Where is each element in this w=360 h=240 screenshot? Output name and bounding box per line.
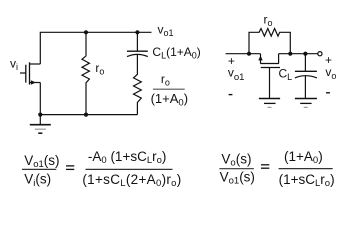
equation 2 LHS fraction bar	[219, 168, 254, 170]
svg-text:vo1: vo1	[158, 23, 174, 39]
equation 1 equals sign	[66, 166, 74, 170]
node dot drain rail at r_o	[84, 30, 88, 34]
wire source down to ground rail	[39, 83, 41, 115]
equation 1 LHS denominator V_i(s)	[24, 172, 51, 189]
label r_o left circuit	[95, 61, 104, 77]
svg-text:(1+A0): (1+A0)	[151, 91, 188, 109]
equation 1 RHS denominator (1+sC_L(2+A_0)r_o)	[82, 172, 181, 189]
node dot main rail at C_L	[303, 52, 307, 56]
node dot bottom rail at r_o	[84, 113, 88, 117]
transistor Q2 gate lead	[269, 68, 271, 99]
equation 2 equals sign	[261, 165, 269, 168]
svg-text:(1+sCLro): (1+sCLro)	[279, 172, 335, 189]
wire main rail right circuit left segment	[226, 53, 261, 55]
transistor Q1 gate lead	[20, 72, 26, 74]
label r_o right circuit	[264, 13, 273, 29]
label plus left	[228, 54, 235, 68]
wire bottom rail left circuit	[40, 114, 137, 116]
svg-text:vo: vo	[325, 65, 336, 81]
label C_L	[279, 66, 293, 82]
equation 2 LHS denominator V_o1(s)	[220, 169, 255, 186]
label C_L(1+A_0)	[152, 45, 200, 61]
equation 1 LHS numerator V_o1(s)	[24, 153, 59, 170]
node dot main rail right	[288, 52, 292, 56]
equation 1 LHS fraction bar	[22, 168, 56, 170]
svg-text:vo1: vo1	[228, 66, 245, 83]
node dot bottom rail at source	[38, 113, 42, 117]
transistor Q2 source lead with arrow	[258, 54, 262, 64]
resistor r_o/(1+A_0)	[134, 55, 142, 115]
label fraction r_o/(1+A_0)	[151, 72, 188, 109]
svg-text:ro: ro	[161, 72, 170, 88]
label v_i	[10, 56, 18, 72]
equation 2 RHS denominator (1+sC_Lr_o)	[279, 172, 335, 189]
label v_o1 right circuit	[228, 66, 245, 83]
label v_o	[325, 65, 336, 81]
ground GND3	[295, 99, 317, 108]
svg-text:CL(1+A0): CL(1+A0)	[152, 45, 200, 61]
svg-text:Vo1(s): Vo1(s)	[220, 169, 255, 186]
node dot main rail left	[247, 52, 251, 56]
label v_o1 top	[158, 23, 174, 39]
svg-text:ro: ro	[95, 61, 104, 77]
capacitor C_L(1+A_0)	[127, 32, 148, 56]
svg-text:Vo(s): Vo(s)	[221, 151, 251, 168]
svg-text:Vi(s): Vi(s)	[24, 172, 51, 189]
equation 1 RHS fraction bar	[86, 168, 173, 170]
equation 1 RHS numerator -A_0(1+sC_Lr_o)	[88, 149, 167, 166]
svg-text:-A0 (1+sCLro): -A0 (1+sCLro)	[88, 149, 167, 166]
equation 2 RHS numerator (1+A_0)	[284, 149, 323, 166]
transistor Q1 source lead with arrow	[30, 80, 41, 84]
svg-text:vi: vi	[10, 56, 18, 72]
resistor r_o right circuit	[249, 29, 290, 54]
svg-text:(1+sCL(2+A0)ro): (1+sCL(2+A0)ro)	[82, 172, 181, 189]
equation 2 RHS fraction bar	[279, 168, 333, 170]
wire main rail right circuit right segment	[279, 53, 318, 55]
transistor Q1 drain lead	[30, 63, 41, 65]
label plus right	[325, 53, 332, 67]
label minus right	[326, 92, 330, 94]
transistor Q2 gate bar	[261, 67, 280, 69]
svg-text:CL: CL	[279, 66, 293, 82]
resistor r_o left circuit	[82, 32, 89, 114]
ground GND2	[259, 99, 280, 108]
ground GND1	[30, 115, 51, 134]
transistor Q2 drain lead	[278, 54, 280, 64]
svg-text:Vo1(s): Vo1(s)	[24, 153, 59, 170]
label minus left	[229, 94, 233, 96]
svg-text:ro: ro	[264, 13, 273, 29]
transistor Q2 channel bar	[260, 63, 279, 65]
terminal open circle v_o	[318, 52, 322, 56]
capacitor C_L right circuit	[295, 54, 317, 98]
wire top rail left circuit	[40, 32, 151, 64]
equation 2 LHS numerator V_o(s)	[221, 151, 251, 168]
node dot drain rail at C branch	[135, 30, 139, 34]
transistor Q1 channel bar	[29, 62, 31, 84]
svg-text:(1+A0): (1+A0)	[284, 149, 323, 166]
transistor Q1 gate bar	[25, 65, 27, 83]
